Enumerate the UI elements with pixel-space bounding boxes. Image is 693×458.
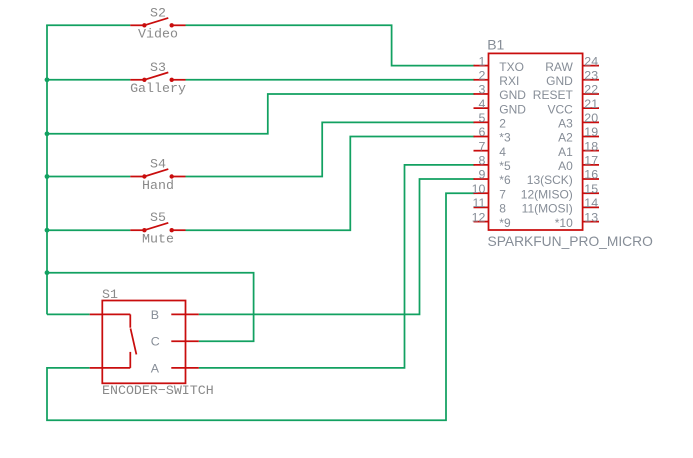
B1 right pin 15 (12(MISO)) (583, 192, 599, 194)
svg-text:B1: B1 (487, 36, 504, 52)
svg-text:24: 24 (584, 54, 598, 68)
wire: S3 right to IC pin 2 (186, 79, 475, 81)
B1 right pin 16 (13(SCK)) (583, 178, 599, 180)
svg-text:*3: *3 (499, 131, 511, 145)
B1 right pin 22 (RESET) (583, 93, 599, 95)
label S2 (150, 5, 166, 20)
junction: bus at S4 (45, 174, 50, 179)
svg-text:GND: GND (499, 102, 526, 116)
B1 pin number 12 (472, 210, 486, 224)
B1 pin number 6 (478, 125, 485, 139)
S1 pin name A (151, 361, 160, 375)
encoder switch S1 body (102, 301, 185, 384)
B1 left pin 10 (7) (474, 192, 489, 194)
S1 right pin C (171, 340, 199, 342)
B1 pin number 9 (478, 168, 485, 182)
svg-text:S3: S3 (150, 60, 166, 75)
svg-text:13(SCK): 13(SCK) (527, 173, 573, 187)
svg-text:7: 7 (499, 187, 506, 201)
svg-text:22: 22 (584, 83, 598, 97)
B1 pin number 21 (584, 97, 598, 111)
IC B1 SPARKFUN_PRO_MICRO body (489, 53, 583, 230)
svg-text:20: 20 (584, 111, 598, 125)
B1 pin number 18 (584, 139, 598, 153)
svg-text:1: 1 (478, 54, 485, 68)
svg-text:A: A (151, 361, 160, 375)
B1 pin number 19 (584, 125, 598, 139)
B1 pin number 8 (478, 154, 485, 168)
svg-text:B: B (151, 308, 159, 322)
value label Video (S2) (138, 27, 178, 42)
wire: bus to S4 left (47, 176, 130, 178)
svg-text:6: 6 (478, 125, 485, 139)
value label Hand (S4) (142, 178, 174, 193)
B1 pin number 23 (584, 68, 598, 82)
switch S5 (130, 223, 185, 233)
wire: bus to S3 left (47, 79, 130, 81)
B1 left pin 9 (*6) (474, 178, 489, 180)
svg-text:2: 2 (499, 117, 506, 131)
B1 pin number 16 (584, 168, 598, 182)
S1 right pin B (171, 313, 199, 315)
B1 pin name GND (499, 102, 526, 116)
B1 left pin 8 (*5) (474, 164, 489, 166)
B1 left pin 12 (*9) (474, 221, 489, 223)
svg-text:Video: Video (138, 27, 178, 42)
B1 left pin 6 (*3) (474, 136, 489, 138)
B1 left pin 7 (4) (474, 150, 489, 152)
B1 pin name *5 (499, 159, 511, 173)
svg-text:*6: *6 (499, 173, 511, 187)
svg-text:9: 9 (478, 168, 485, 182)
B1 pin number 4 (478, 97, 485, 111)
switch S3 (130, 72, 185, 82)
svg-text:4: 4 (499, 145, 506, 159)
junction: bus at GND row (45, 131, 50, 136)
svg-text:A0: A0 (558, 159, 573, 173)
B1 right pin 17 (A0) (583, 164, 599, 166)
svg-text:*10: *10 (555, 216, 573, 230)
B1 pin number 15 (584, 182, 598, 196)
B1 pin name 7 (499, 187, 506, 201)
junction: bus at encoder C row (45, 270, 50, 275)
svg-text:8: 8 (499, 202, 506, 216)
svg-text:RAW: RAW (545, 60, 573, 74)
svg-text:RESET: RESET (533, 88, 574, 102)
svg-text:VCC: VCC (547, 102, 573, 116)
wire: S1 left pin A to IC pin 10 (47, 193, 475, 420)
svg-text:18: 18 (584, 139, 598, 153)
svg-text:13: 13 (584, 210, 598, 224)
B1 pin number 22 (584, 83, 598, 97)
svg-text:15: 15 (584, 182, 598, 196)
B1 right pin 21 (VCC) (583, 107, 599, 109)
svg-text:S2: S2 (150, 5, 166, 20)
svg-text:Hand: Hand (142, 178, 174, 193)
wire: S1 right pin B to IC pin 9 (199, 179, 475, 314)
B1 pin name A1 (558, 145, 573, 159)
svg-text:*5: *5 (499, 159, 511, 173)
B1 pin name RESET (533, 88, 574, 102)
svg-text:S5: S5 (150, 210, 166, 225)
B1 left pin 2 (RXI) (474, 79, 489, 81)
B1 pin name *9 (499, 216, 511, 230)
B1 right pin 19 (A2) (583, 136, 599, 138)
B1 pin name VCC (547, 102, 573, 116)
svg-text:A1: A1 (558, 145, 573, 159)
svg-text:RXI: RXI (499, 74, 519, 88)
B1 right pin 20 (A3) (583, 121, 599, 123)
B1 pin number 20 (584, 111, 598, 125)
wire: bus to IC pin 3 (GND net) (47, 94, 475, 134)
label S1 (102, 287, 118, 302)
B1 pin number 13 (584, 210, 598, 224)
svg-text:17: 17 (584, 154, 598, 168)
B1 pin name *3 (499, 131, 511, 145)
S1 left pin A (90, 367, 103, 369)
svg-text:Gallery: Gallery (130, 81, 186, 96)
svg-text:2: 2 (478, 68, 485, 82)
B1 pin name 11(MOSI) (522, 202, 573, 216)
svg-text:3: 3 (478, 83, 485, 97)
B1 pin name A0 (558, 159, 573, 173)
value label SPARKFUN_PRO_MICRO (B1) (488, 234, 654, 249)
svg-text:*9: *9 (499, 216, 511, 230)
junction: bus at S5 (45, 228, 50, 233)
svg-text:S4: S4 (150, 157, 166, 172)
svg-text:S1: S1 (102, 287, 118, 302)
B1 pin name RXI (499, 74, 519, 88)
B1 left pin 1 (TXO) (474, 65, 489, 67)
label S4 (150, 157, 166, 172)
B1 pin number 5 (478, 111, 485, 125)
B1 pin name GND (499, 88, 526, 102)
wire: S5 right to IC pin 6 (186, 137, 475, 231)
B1 pin number 10 (472, 182, 486, 196)
svg-text:GND: GND (546, 74, 573, 88)
value label Mute (S5) (142, 232, 174, 247)
svg-text:GND: GND (499, 88, 526, 102)
wire: bus to S1 left pin B (47, 313, 90, 315)
B1 pin name GND (546, 74, 573, 88)
B1 left pin 3 (GND) (474, 93, 489, 95)
B1 pin number 24 (584, 54, 598, 68)
label S5 (150, 210, 166, 225)
label S3 (150, 60, 166, 75)
svg-text:SPARKFUN_PRO_MICRO: SPARKFUN_PRO_MICRO (488, 234, 654, 249)
svg-text:14: 14 (584, 196, 598, 210)
S1 pin name B (151, 308, 159, 322)
S1 left pin B (90, 313, 103, 315)
B1 pin name 2 (499, 117, 506, 131)
value label ENCODER-SWITCH (S1) (102, 383, 214, 398)
svg-text:5: 5 (478, 111, 485, 125)
B1 right pin 18 (A1) (583, 150, 599, 152)
B1 pin number 2 (478, 68, 485, 82)
svg-text:Mute: Mute (142, 232, 174, 247)
svg-text:12: 12 (472, 210, 486, 224)
wire: S2 right to IC pin 1 (186, 25, 475, 65)
junction: bus at S3 (45, 77, 50, 82)
B1 pin name 4 (499, 145, 506, 159)
B1 pin number 7 (478, 139, 485, 153)
svg-text:11(MOSI): 11(MOSI) (522, 202, 573, 216)
B1 pin number 11 (473, 196, 486, 210)
switch S2 (130, 18, 185, 28)
B1 pin name 13(SCK) (527, 173, 573, 187)
B1 right pin 13 (*10) (583, 221, 599, 223)
S1 pin name C (151, 335, 160, 349)
wire: S4 right to IC pin 5 (186, 122, 475, 176)
B1 pin name TXO (499, 60, 524, 74)
svg-text:11: 11 (473, 196, 486, 210)
B1 left pin 11 (8) (474, 206, 489, 208)
B1 pin name A3 (558, 117, 573, 131)
B1 pin name RAW (545, 60, 573, 74)
B1 pin name 12(MISO) (521, 187, 573, 201)
B1 pin name *10 (555, 216, 573, 230)
B1 left pin 5 (2) (474, 121, 489, 123)
svg-text:8: 8 (478, 154, 485, 168)
wire: bus to S1 pin C (47, 273, 254, 342)
svg-text:19: 19 (584, 125, 598, 139)
wire: bus to S2 left (46, 24, 130, 26)
wire: bus to S5 left (47, 229, 130, 231)
svg-text:7: 7 (478, 139, 485, 153)
B1 pin number 3 (478, 83, 485, 97)
svg-text:10: 10 (472, 182, 486, 196)
svg-text:A2: A2 (558, 131, 573, 145)
svg-text:12(MISO): 12(MISO) (521, 187, 573, 201)
B1 pin number 17 (584, 154, 598, 168)
S1 right pin A (171, 367, 199, 369)
wire: GND bus vertical (46, 25, 48, 314)
B1 right pin 23 (GND) (583, 79, 599, 81)
svg-text:21: 21 (584, 97, 598, 111)
B1 pin name *6 (499, 173, 511, 187)
value label Gallery (S3) (130, 81, 186, 96)
svg-text:23: 23 (584, 68, 598, 82)
svg-text:TXO: TXO (499, 60, 524, 74)
B1 left pin 4 (GND) (474, 107, 489, 109)
B1 pin number 14 (584, 196, 598, 210)
wire: S1 right pin A to IC pin 8 (199, 165, 475, 368)
svg-text:16: 16 (584, 168, 598, 182)
switch S4 (130, 169, 185, 179)
B1 right pin 14 (11(MOSI)) (583, 206, 599, 208)
B1 pin name A2 (558, 131, 573, 145)
B1 pin name 8 (499, 202, 506, 216)
svg-text:C: C (151, 335, 160, 349)
B1 right pin 24 (RAW) (583, 65, 599, 67)
svg-text:4: 4 (478, 97, 485, 111)
svg-text:ENCODER−SWITCH: ENCODER−SWITCH (102, 383, 214, 398)
label B1 (487, 36, 504, 52)
svg-text:A3: A3 (558, 117, 573, 131)
B1 pin number 1 (478, 54, 485, 68)
